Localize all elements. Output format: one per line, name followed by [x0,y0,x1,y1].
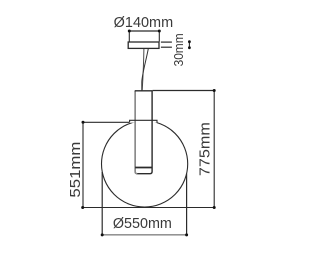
svg-text:30mm: 30mm [171,33,186,66]
svg-text:551mm: 551mm [67,142,84,198]
svg-text:Ø140mm: Ø140mm [114,14,174,31]
svg-text:Ø550mm: Ø550mm [113,215,172,232]
svg-text:775mm: 775mm [197,122,214,176]
